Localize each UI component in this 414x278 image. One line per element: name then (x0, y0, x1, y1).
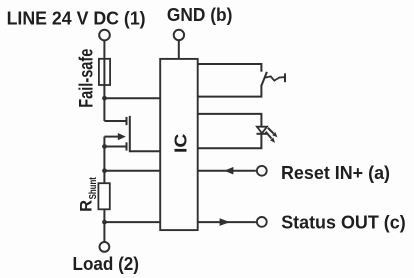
svg-text:Shunt: Shunt (87, 177, 99, 200)
svg-text:LINE 24 V DC (1): LINE 24 V DC (1) (7, 7, 146, 28)
svg-text:R: R (78, 200, 96, 212)
svg-text:IC: IC (170, 133, 190, 153)
svg-text:Load (2): Load (2) (73, 253, 140, 274)
svg-text:Reset IN+ (a): Reset IN+ (a) (281, 162, 390, 183)
svg-text:Fail-safe: Fail-safe (77, 49, 98, 108)
svg-text:GND (b): GND (b) (167, 4, 233, 25)
svg-text:Status OUT (c): Status OUT (c) (281, 211, 406, 232)
